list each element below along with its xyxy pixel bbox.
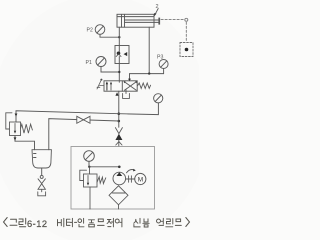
tank symbol below check valve — [38, 189, 46, 196]
wire rod line to valve port B — [128, 72, 164, 81]
svg-text:6-12: 6-12 — [27, 219, 48, 229]
relief valve spring — [21, 124, 33, 133]
main pressure line — [118, 91, 121, 127]
sensor dashed wire from rod end — [161, 20, 186, 42]
check valve below cup — [38, 175, 45, 189]
valve return spring — [138, 83, 151, 88]
wire gauge P1 to A-line — [101, 67, 121, 74]
shut-off valve — [77, 116, 90, 123]
wire FCV to valve port A — [118, 64, 120, 83]
wire gauge P2 to A-line — [100, 34, 121, 38]
limit switch (dashed box with dot) — [180, 43, 193, 57]
caption 그림 — [10, 218, 26, 227]
inner relief valve R2 — [80, 167, 97, 187]
coupling pump-motor — [126, 169, 136, 182]
valve port P arrow — [115, 92, 118, 96]
motor M — [135, 173, 146, 184]
gauge P1 — [86, 57, 107, 67]
inner relief drain wire — [89, 187, 91, 209]
wire gauge to pump line — [88, 161, 120, 168]
tank cup reservoir — [32, 150, 51, 168]
svg-text:P2: P2 — [87, 28, 93, 34]
relief feed wire (left, upper) — [15, 111, 119, 122]
valve lever actuator — [97, 79, 104, 89]
drain wire with shut-off (lower left) — [49, 119, 119, 150]
filter — [109, 186, 128, 209]
relief valve drain wire to tank cup — [14, 136, 35, 150]
caption angle bracket left — [4, 218, 8, 227]
caption 회로도 — [157, 218, 182, 227]
gauge P3 — [157, 55, 168, 74]
wire cup to check valve — [41, 168, 43, 175]
valve left box arrows — [106, 81, 112, 90]
wire cylinder rod port down — [148, 27, 150, 73]
wire cylinder cap port down (A-line upper) — [118, 27, 120, 45]
svg-text:P3: P3 — [157, 55, 163, 61]
directional valve 4/2 U1 body — [104, 81, 137, 91]
svg-text:P1: P1 — [86, 60, 92, 66]
hydraulic pump P — [113, 172, 126, 185]
caption 6-12 — [27, 219, 48, 229]
check valve on main line — [115, 128, 122, 147]
power unit enclosure — [71, 147, 155, 210]
cylinder piston — [122, 14, 125, 27]
gauge wire (right) — [119, 103, 159, 115]
gauge P2 — [87, 25, 105, 35]
cylinder rod — [125, 18, 160, 25]
label 2 with leader arrow — [154, 4, 159, 16]
gauge P5 (pump gauge) — [84, 151, 95, 162]
svg-text:M: M — [138, 176, 143, 183]
flow control valve (meter-in) — [115, 46, 129, 64]
caption 미터-인 — [58, 218, 85, 227]
valve right box crossed arrows — [124, 81, 138, 90]
caption angle bracket right — [186, 218, 190, 227]
gauge P4 — [154, 94, 163, 103]
valve port T tank symbol — [123, 90, 130, 99]
inner relief spring — [97, 177, 106, 184]
caption 실습 — [134, 218, 149, 227]
relief valve R1 — [6, 113, 21, 136]
caption 속도제어 — [89, 218, 122, 227]
node circle on dashed wire — [185, 18, 188, 21]
cylinder 2 body — [117, 14, 154, 27]
